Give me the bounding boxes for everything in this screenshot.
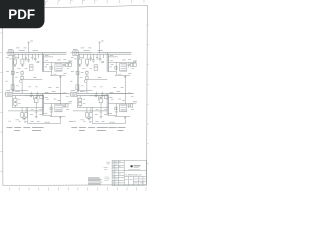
revision table verticals <box>115 160 124 185</box>
PDF badge <box>0 0 45 28</box>
box A1 between rails <box>34 99 38 103</box>
label R6 <box>18 102 21 104</box>
power rail 2 (double wire) <box>12 93 69 95</box>
legend group 3 <box>23 127 30 129</box>
tick near frame <box>6 56 9 58</box>
notes line 2 <box>88 178 102 181</box>
box B3 output right <box>69 63 72 66</box>
label J2 <box>6 90 11 92</box>
op-amp U3 <box>55 104 62 112</box>
capacitor C7 <box>63 103 66 108</box>
wire jog <box>27 107 60 123</box>
box B1 <box>40 95 44 99</box>
lower wire band2 bottom <box>8 110 42 112</box>
legend group 2 <box>14 128 21 131</box>
U1 inner pins <box>56 65 61 70</box>
ground cluster <box>22 117 26 120</box>
long vertical wire <box>59 75 61 104</box>
sheet border frame <box>2 5 147 185</box>
chain link wires <box>21 71 23 80</box>
label A1 <box>34 97 37 99</box>
wire from U1 output <box>70 62 72 64</box>
wire frame to J2 <box>5 93 6 95</box>
connector J1 pin text <box>9 52 13 54</box>
ground under R1 <box>14 64 16 66</box>
jog tick text <box>24 121 26 124</box>
lower rail 2b <box>12 106 44 108</box>
A1 drop wire <box>35 96 37 108</box>
capacitor C5 <box>35 108 38 117</box>
R6 to rail wire <box>14 105 16 107</box>
logo text line2 <box>134 166 139 169</box>
power rail (double wire) <box>8 53 67 55</box>
logo sub text <box>128 168 141 171</box>
ground symbol 2 <box>59 116 61 119</box>
R5-R6 link wire <box>14 96 16 103</box>
label R5 <box>18 98 21 100</box>
connector J2 pin text <box>7 93 11 95</box>
resistor R1 <box>13 59 16 64</box>
notes header line <box>88 177 100 180</box>
wire drop 2 <box>18 54 20 58</box>
svg-text:PDF: PDF <box>8 7 35 22</box>
label text above sub rail <box>45 54 55 55</box>
wire drop 5 <box>38 54 40 58</box>
bus vertical (double wire) <box>42 53 43 72</box>
sub rail wire band2 <box>44 93 67 95</box>
misc label specks <box>8 48 69 121</box>
label U3 <box>57 100 60 102</box>
right margin tick marks <box>147 25 149 164</box>
resistor chain Ra <box>21 72 23 75</box>
capacitor C7b <box>66 104 68 107</box>
U3 inner pins <box>56 106 61 111</box>
wire from chain right <box>22 78 42 80</box>
right flag reposition mask <box>91 39 97 52</box>
wire drop 4 <box>31 54 33 60</box>
wire drop to R7 <box>22 108 26 113</box>
ground under R2 <box>21 64 23 66</box>
title block outer box <box>112 160 146 185</box>
ground under C5 <box>35 117 38 119</box>
bottom strip sub divider <box>133 180 146 182</box>
label +V <box>30 40 33 42</box>
capacitor C2 <box>27 54 30 62</box>
connector J1 <box>8 51 14 56</box>
left margin tick marks <box>0 33 2 172</box>
capacitor C9 <box>63 63 66 68</box>
wire mid horizontal <box>25 96 44 100</box>
legend group 1 <box>7 127 13 129</box>
net labels above rail2 <box>15 92 32 97</box>
resistor R3b <box>50 107 52 110</box>
notes line 4 <box>88 181 102 184</box>
capacitor C3 <box>30 92 33 97</box>
capacitor C10 <box>66 63 68 66</box>
wire rail y62 <box>44 61 70 63</box>
number row divider <box>124 176 146 178</box>
legend group 4 <box>32 128 44 131</box>
resistor chain Rb <box>21 76 23 79</box>
zone text (2) <box>6 72 10 82</box>
bottom strip cell dividers <box>129 177 143 186</box>
notes line 3 <box>88 179 100 182</box>
box B2 bottom-left of cluster <box>11 71 14 74</box>
approval text specks <box>105 177 111 181</box>
wire Q1 to rail <box>21 83 23 94</box>
label +V right <box>101 40 104 42</box>
resistor R4 on column <box>11 85 14 90</box>
bottom margin tick marks <box>9 187 146 190</box>
revision table rows <box>112 163 124 183</box>
label J1 <box>8 48 13 50</box>
company logo mark <box>130 165 133 167</box>
wire drop 3 <box>21 54 23 59</box>
wire from frame to J1 <box>6 52 9 54</box>
wire L from bus 2 <box>44 114 52 116</box>
ground bus wire 2 <box>50 115 65 117</box>
wire L from bus <box>44 62 52 75</box>
svg-text:D-5958-0301-56: D-5958-0301-56 <box>126 174 143 176</box>
power flag +V right <box>98 41 100 53</box>
op-amp U1 <box>55 63 62 71</box>
wire rail2 y103 <box>44 102 70 104</box>
resistor R5 <box>14 98 17 101</box>
logo cell divider <box>124 170 146 172</box>
power flag +V <box>28 41 30 53</box>
regulator U2 <box>29 65 33 71</box>
resistor R2 <box>21 59 24 64</box>
wire drop 1 <box>14 54 16 59</box>
ground symbol <box>59 76 61 79</box>
wire L down 2 <box>50 103 52 116</box>
more label specks <box>9 57 69 121</box>
company logo text <box>134 165 141 166</box>
capacitor C4 <box>36 92 39 97</box>
transistor Q1 <box>20 80 23 83</box>
resistor R3 <box>50 66 52 69</box>
legend group 6 right <box>118 128 126 131</box>
notes text block <box>88 178 102 185</box>
label near drop2 <box>15 56 18 58</box>
legend label text <box>45 121 51 123</box>
resistor R7 vertical <box>21 113 24 118</box>
notes line 6 <box>88 183 101 186</box>
revision table cell text specks <box>113 161 121 184</box>
notes line 5 <box>88 182 101 185</box>
J2 to rail2b wire <box>11 96 13 107</box>
label U1 <box>57 59 60 61</box>
label output net 2 <box>68 101 72 103</box>
resistor R6 <box>14 103 17 106</box>
zone number text mid-sheet <box>69 120 73 122</box>
label B3 <box>69 61 72 63</box>
connector J2 <box>6 92 12 96</box>
wire from U3 output <box>70 102 72 104</box>
bottom strip cell text <box>125 179 146 184</box>
top margin tick marks <box>46 0 147 5</box>
capacitor C1 <box>25 54 28 61</box>
connector column vertical wire (double) <box>12 56 13 93</box>
capacitor C8 <box>34 54 37 61</box>
ground bus wire <box>50 74 65 76</box>
approval signature squiggle <box>103 162 110 169</box>
legend group 5 right <box>109 127 117 129</box>
chain side labels <box>16 73 19 86</box>
bus vertical 2 (double wire) <box>42 94 43 116</box>
label text above band2 sub rail <box>45 91 55 92</box>
net label text <box>19 49 38 51</box>
sub rail wire <box>44 56 54 58</box>
resistor R8 vertical <box>25 113 28 118</box>
U2 inner text <box>30 66 32 67</box>
wire row2 mid <box>12 89 27 91</box>
label output net <box>68 60 72 62</box>
